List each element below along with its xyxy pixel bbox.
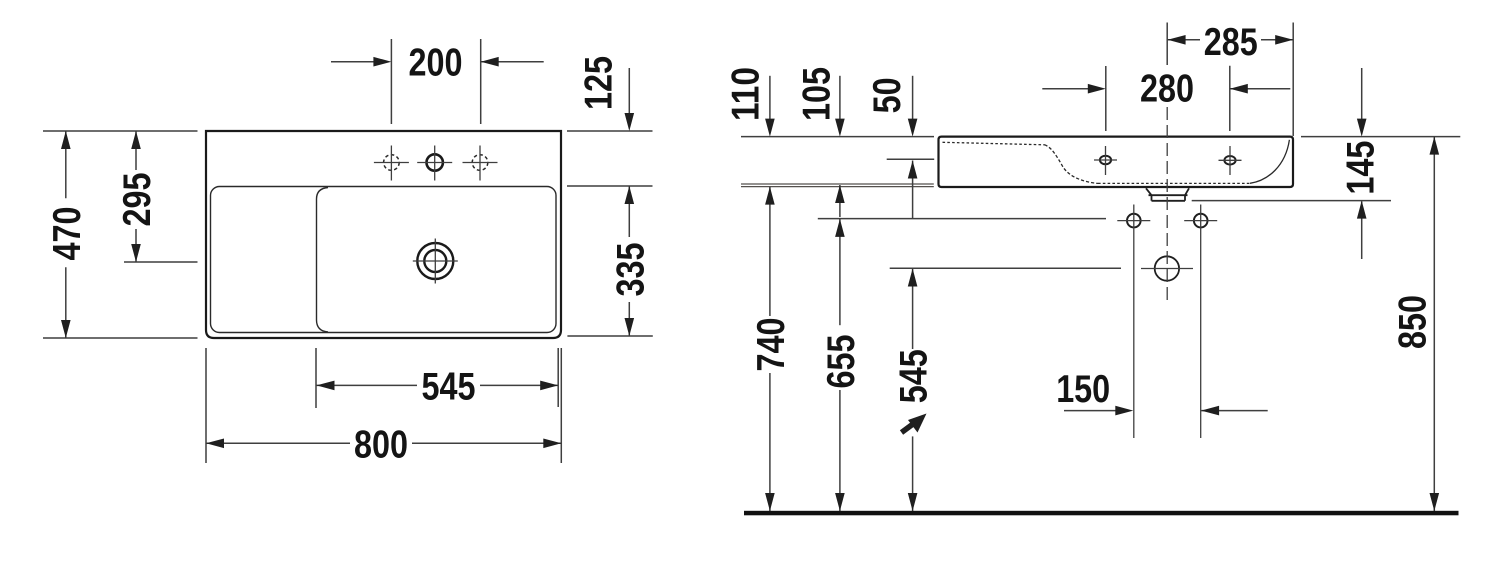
svg-text:150: 150 [1056,368,1110,411]
dim 125 arrow [628,68,630,123]
drain protrusion [1146,188,1189,201]
drain pipe crosshair [1141,268,1193,270]
dim 545 lower shaft [912,436,914,511]
dim 280 extension lines [1106,66,1230,131]
dim 280 leaders [1042,88,1290,90]
svg-text:280: 280 [1140,68,1194,111]
fixing hole right [1194,214,1208,228]
drain centerline (dashed) [1166,23,1168,66]
svg-text:105: 105 [796,67,839,121]
dim 655 top arrow [839,219,841,325]
reference line drain level [890,267,1121,269]
reference line faucet height [887,158,935,160]
reference line top edge left [741,136,934,138]
dim 50 lower arrow [912,161,914,220]
svg-text:285: 285 [1204,21,1258,64]
fixing hole left axis / 150 extension [1133,205,1135,439]
svg-text:470: 470 [46,207,89,261]
faucet hole center (solid) [427,154,443,170]
dim 800 line [206,442,561,444]
dim 200 leaders [331,61,544,63]
dim 335 line [628,187,630,337]
dim 295 line [135,131,137,262]
dim 145 lower arrow [1361,202,1363,260]
dim 545 line [317,384,558,386]
svg-text:545: 545 [422,366,476,409]
bowl curve from shelf [1045,145,1099,184]
shelf hidden edge (dotted) [943,142,1045,145]
bowl right wall curve [1250,140,1289,184]
fixing hole left [1127,214,1141,228]
svg-text:850: 850 [1392,295,1435,349]
fixing hole right axis / 150 extension [1200,205,1202,439]
dim 200 extension lines [391,39,480,124]
drain crosshair [413,239,458,284]
bowl bottom (dotted) [1098,182,1250,184]
dim 285 extension right [1292,23,1294,137]
dim 850 line [1433,137,1435,511]
dim 50 arrow [912,76,914,129]
svg-text:50: 50 [866,77,909,113]
side faucet hole right [1224,156,1235,165]
svg-text:655: 655 [820,335,863,389]
dim 285 line [1168,39,1294,41]
svg-text:545: 545 [892,349,935,403]
bowl left wall [317,188,329,333]
svg-text:335: 335 [609,243,652,297]
dim 545 top arrow (right view) [912,269,914,350]
reference line top edge right [1301,136,1460,138]
svg-text:200: 200 [409,42,463,85]
dim 545 oblique arrow [902,424,914,433]
faucet hole left (dashed) [384,155,400,171]
dim 470 line [65,131,67,338]
dim 150 leaders [1064,410,1268,412]
reference line 110 level [741,186,934,188]
svg-text:800: 800 [354,424,408,467]
basin outer outline [206,131,561,338]
dim 545 extension lines [316,348,558,408]
floor line [744,511,1459,516]
dim 105 lower arrow [839,185,841,217]
basin profile outline [939,137,1294,187]
dim 110 arrow [769,76,771,129]
drain inner circle [424,250,446,272]
dim 655 lower shaft [839,390,841,511]
svg-text:110: 110 [725,67,768,121]
dim 800 extension lines [206,348,561,463]
dim 110 lower arrow / dim 740 top arrow [769,187,771,316]
extension line bottom-left [43,337,198,339]
basin inner rim [211,187,557,333]
extension line drain level left [124,261,198,263]
faucet hole right (dashed) [472,155,488,171]
extension lines right of basin [567,131,653,336]
drain pipe circle [1155,256,1179,280]
extension line top-left [43,130,198,132]
svg-text:145: 145 [1340,141,1383,195]
reference line 105 level [741,183,934,185]
dim 740 lower shaft [769,373,771,511]
side faucet hole left [1100,156,1111,165]
dim 105 arrow [839,76,841,129]
drain outer circle [417,243,453,279]
dim 145 upper arrow [1361,68,1363,129]
svg-text:125: 125 [578,56,621,110]
svg-text:740: 740 [750,318,793,372]
svg-text:295: 295 [116,173,159,227]
reference line fixing holes level [818,218,1106,220]
reference line siphon bottom [1192,200,1391,202]
